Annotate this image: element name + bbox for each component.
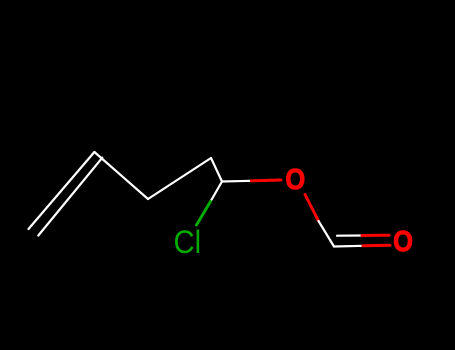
C2-C3 — [94, 152, 148, 199]
C3-C4a — [148, 158, 211, 199]
O1-C5 red half — [305, 195, 319, 222]
svg-text:Cl: Cl — [174, 224, 202, 260]
C4-O1 white half — [222, 180, 252, 183]
svg-text:O: O — [285, 162, 305, 195]
svg-text:O: O — [393, 224, 413, 257]
C4a-C4 — [211, 158, 222, 182]
C5=O2 second line white half — [337, 234, 362, 236]
C5=O2 second line red half — [362, 234, 389, 237]
vinyl C1=C2 main line — [29, 152, 95, 229]
C5=O2 main red half — [363, 244, 390, 248]
C4-O1 red half — [252, 179, 282, 183]
vinyl C1=C2 second line — [38, 158, 102, 236]
C4-Cl white half — [211, 182, 223, 202]
O1-C5 white half — [319, 221, 335, 247]
C5=O2 main white half — [334, 245, 363, 248]
C4-Cl green half — [197, 202, 211, 226]
